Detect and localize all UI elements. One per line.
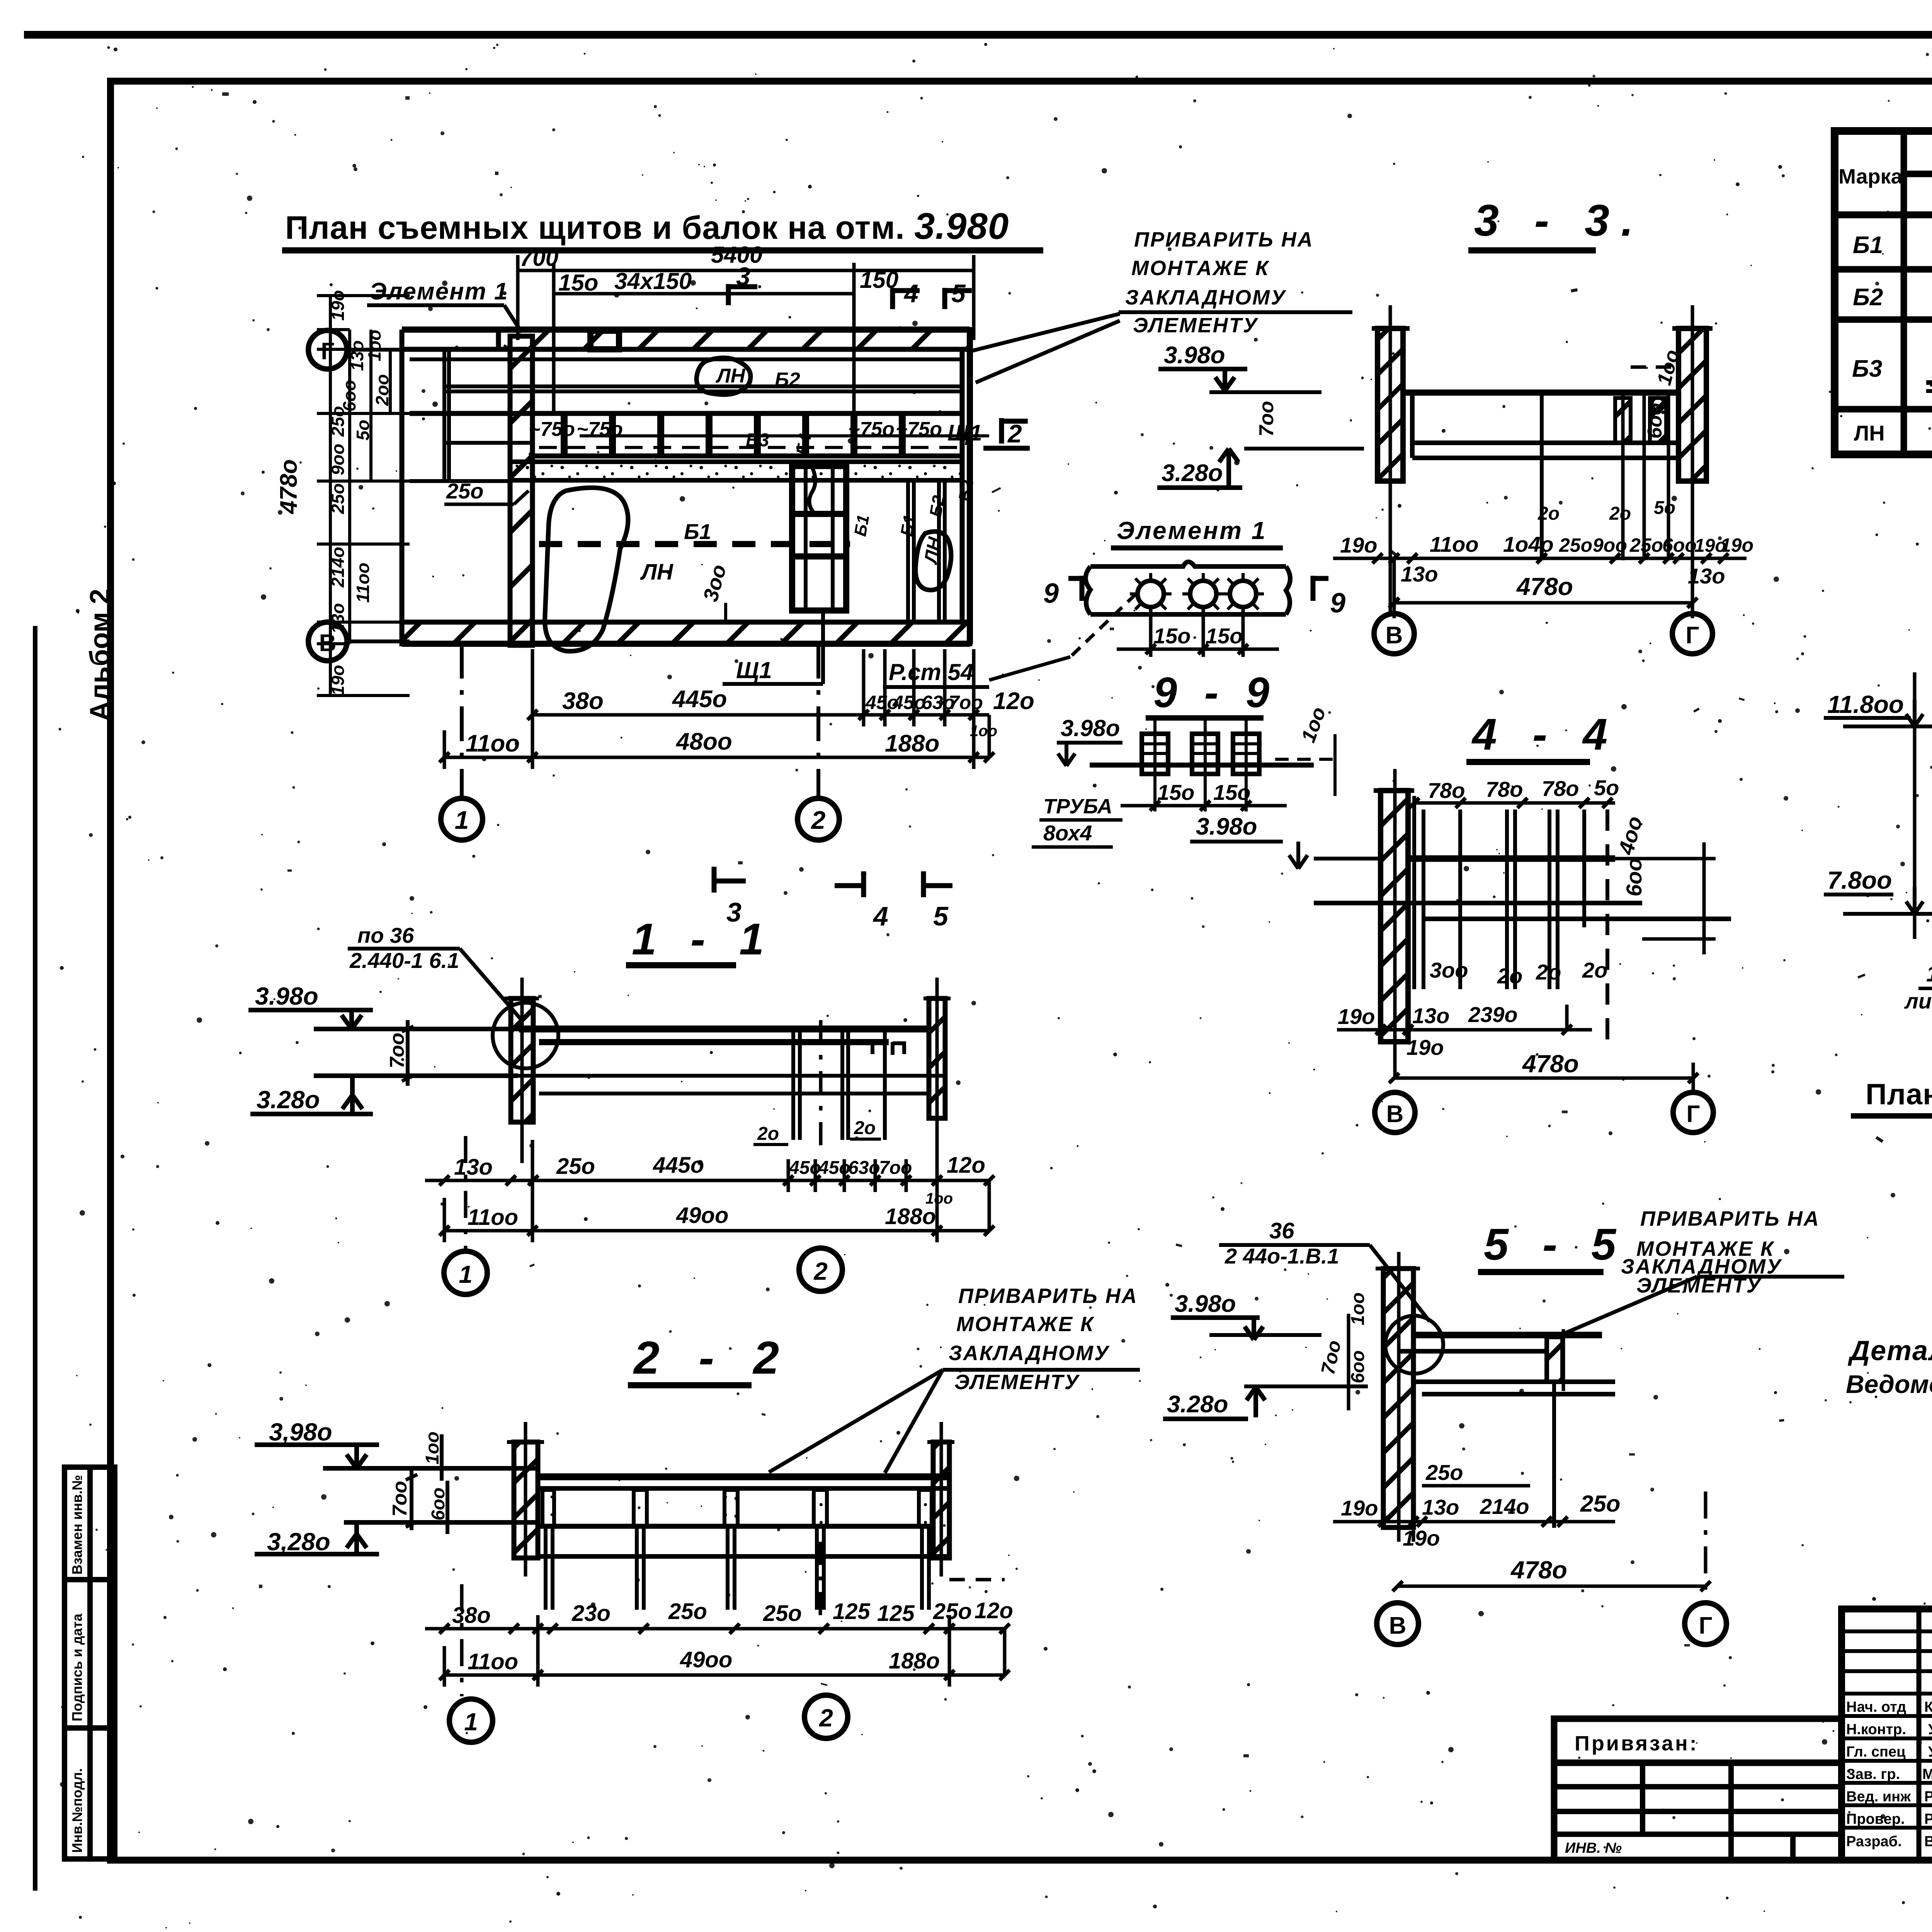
svg-text:Мембороская: Мембороская [1922,1766,1932,1782]
svg-text:Г: Г [1685,622,1699,649]
svg-text:7оо: 7оо [879,1158,912,1178]
svg-text:9оо: 9оо [1593,534,1627,556]
svg-text:2о: 2о [1582,958,1607,982]
svg-text:Щ1: Щ1 [947,420,982,446]
svg-text:11оо: 11оо [466,730,520,757]
svg-text:25o: 25o [446,479,484,503]
svg-text:2: 2 [813,1257,828,1285]
svg-text:3,98o: 3,98o [269,1418,332,1446]
svg-text:1оо: 1оо [970,723,997,740]
svg-text:13о: 13о [1688,564,1725,588]
svg-text:478о: 478о [1516,573,1573,600]
svg-text:700: 700 [520,245,558,271]
svg-text:ПРИВАРИТЬ НА: ПРИВАРИТЬ НА [1640,1207,1820,1230]
svg-text:3 - 3.: 3 - 3. [1474,196,1645,245]
svg-text:49оо: 49оо [676,1203,728,1228]
svg-text:25o: 25o [556,1154,595,1179]
svg-text:15о: 15о [1153,624,1191,648]
svg-text:4: 4 [872,901,888,931]
svg-text:В: В [1386,1101,1404,1128]
svg-text:12о: 12о [993,688,1034,714]
svg-text:19о: 19о [1720,534,1753,556]
svg-text:13о: 13о [1401,562,1438,586]
svg-text:5: 5 [933,901,949,931]
svg-text:25о: 25о [763,1601,802,1626]
svg-text:49оо: 49оо [680,1647,732,1672]
svg-text:Инв.№подл.: Инв.№подл. [69,1768,85,1853]
svg-text:Б3: Б3 [1852,355,1882,382]
svg-text:13o: 13o [454,1155,493,1180]
svg-text:25о: 25о [1629,534,1663,556]
svg-text:Б1: Б1 [1853,232,1883,259]
svg-text:1: 1 [455,806,469,834]
svg-text:2о: 2о [1609,503,1631,524]
svg-text:ЭЛЕМЕНТУ: ЭЛЕМЕНТУ [954,1371,1080,1394]
svg-text:9: 9 [1043,578,1059,609]
svg-text:ЗАКЛАДНОМУ: ЗАКЛАДНОМУ [1125,286,1286,309]
svg-text:78о: 78о [1486,777,1523,801]
svg-text:1: 1 [464,1708,478,1736]
svg-text:2: 2 [811,806,826,834]
svg-text:11оо: 11оо [468,1649,518,1674]
svg-text:25о: 25о [1580,1491,1620,1517]
svg-text:13о: 13о [1422,1495,1459,1519]
svg-text:48оо: 48оо [675,728,732,755]
svg-text:19о: 19о [1406,1035,1444,1060]
svg-text:7оо: 7оо [1255,401,1278,437]
svg-text:6оо: 6оо [1662,534,1697,556]
svg-text:188о: 188о [885,1204,936,1229]
svg-text:~75o: ~75o [529,418,575,440]
svg-text:125: 125 [833,1599,871,1624]
svg-text:2о: 2о [1537,503,1560,524]
svg-text:ЗАКЛАДНОМУ: ЗАКЛАДНОМУ [949,1342,1110,1365]
svg-text:2 44o-1.В.1: 2 44o-1.В.1 [1225,1244,1339,1268]
svg-text:Щ1: Щ1 [736,657,772,683]
svg-text:2о: 2о [1497,964,1522,988]
svg-text:3.98o: 3.98o [255,982,318,1010]
svg-text:17: 17 [1926,961,1932,986]
svg-text:5 - 5: 5 - 5 [1484,1220,1627,1269]
svg-text:7оо: 7оо [386,1033,408,1068]
svg-text:ЛН: ЛН [1854,421,1885,445]
svg-text:Альбом 2: Альбом 2 [85,589,116,721]
svg-text:4: 4 [903,279,918,308]
svg-text:Б3: Б3 [746,430,769,451]
svg-text:15о: 15о [1213,780,1251,804]
svg-text:11оо: 11оо [353,563,373,603]
svg-text:3.98o: 3.98o [1164,342,1225,369]
svg-text:5: 5 [951,279,966,308]
svg-text:45о: 45о [892,692,926,713]
svg-text:1оо: 1оо [422,1432,443,1464]
svg-text:478о: 478о [1522,1050,1579,1078]
svg-text:2: 2 [1930,371,1932,390]
svg-text:9: 9 [1330,588,1345,619]
svg-text:6оо: 6оо [1644,403,1666,439]
svg-text:1оо: 1оо [364,330,384,361]
svg-text:25о: 25о [933,1599,972,1624]
svg-text:6оо: 6оо [1622,858,1646,896]
svg-text:3оо: 3оо [1430,958,1468,982]
svg-text:19о: 19о [1403,1526,1440,1550]
svg-text:3.28o: 3.28o [1162,460,1223,486]
svg-text:3.28o: 3.28o [257,1086,320,1114]
svg-text:Б2: Б2 [1853,284,1883,311]
svg-text:Рапопорт: Рапопорт [1924,1789,1932,1805]
svg-text:2o: 2o [757,1124,779,1144]
svg-text:лист 26: лист 26 [1904,989,1932,1013]
svg-text:19o: 19o [1338,1004,1375,1029]
svg-text:План пожарной лестницы у ряда: План пожарной лестницы у ряда „В" [1866,1078,1932,1111]
svg-text:Взамен инв.№: Взамен инв.№ [69,1475,85,1575]
svg-text:ТРУБА: ТРУБА [1043,795,1112,818]
svg-text:2: 2 [1007,419,1022,448]
svg-text:15o: 15o [558,270,598,296]
svg-text:6оо: 6оо [1348,1350,1368,1383]
svg-text:Г: Г [1686,1101,1700,1128]
svg-text:Н.контр.: Н.контр. [1846,1721,1906,1738]
svg-text:План съемных щитов и балок на: План съемных щитов и балок на отм. 3.980 [285,206,1009,247]
svg-text:Деталь щита Щ1 см. лист 19,: Деталь щита Щ1 см. лист 19, [1847,1335,1932,1366]
svg-text:445o: 445o [653,1153,704,1178]
svg-text:Капитульский: Капитульский [1924,1699,1932,1715]
svg-text:125: 125 [877,1601,915,1626]
svg-text:Учитель: Учитель [1928,1721,1932,1738]
svg-text:Нач. отд: Нач. отд [1846,1699,1906,1715]
svg-text:3.28o: 3.28o [1167,1391,1228,1418]
svg-text:3.98о: 3.98о [1196,813,1257,840]
svg-text:5о: 5о [1654,498,1675,518]
svg-text:445o: 445o [672,686,727,713]
svg-text:ЭЛЕМЕНТУ: ЭЛЕМЕНТУ [1133,314,1259,337]
svg-text:38о: 38о [452,1603,491,1628]
svg-text:Провер.: Провер. [1846,1811,1905,1827]
svg-text:9 - 9: 9 - 9 [1153,669,1277,716]
svg-text:188о: 188о [885,730,939,757]
svg-text:12о: 12о [947,1153,985,1178]
svg-text:15о: 15о [1206,624,1243,648]
svg-text:Г: Г [321,338,334,365]
svg-text:Ведомость элементов по сери: Ведомость элементов по серии 1.45о. 3 - … [1846,1370,1932,1398]
svg-text:1 - 1: 1 - 1 [632,915,775,964]
svg-text:19o: 19o [1341,1496,1378,1520]
svg-text:ИНВ. №: ИНВ. № [1565,1840,1622,1856]
svg-text:Элемент 1: Элемент 1 [369,278,508,305]
svg-text:45о: 45о [818,1158,850,1178]
svg-text:Б1: Б1 [684,519,711,544]
svg-text:36: 36 [1269,1218,1294,1243]
svg-text:Б2: Б2 [775,369,800,391]
svg-text:25o: 25o [1425,1460,1463,1485]
svg-text:2о: 2о [1536,960,1561,984]
svg-text:Б2: Б2 [926,494,949,519]
svg-text:по 36: по 36 [357,923,414,947]
svg-text:4 - 4: 4 - 4 [1471,710,1619,759]
svg-text:45о: 45о [789,1158,821,1178]
svg-text:Б1: Б1 [851,513,873,537]
svg-text:78о: 78о [1542,776,1579,801]
svg-text:78о: 78о [1428,778,1465,803]
svg-text:38о: 38о [562,688,604,714]
svg-text:7оо: 7оо [389,1481,411,1517]
svg-text:2 - 2: 2 - 2 [633,1332,792,1384]
svg-text:Привязан:: Привязан: [1575,1732,1699,1755]
svg-text:12о: 12о [975,1598,1013,1623]
svg-text:34х150: 34х150 [614,268,692,294]
svg-text:8ох4: 8ох4 [1043,821,1092,845]
svg-text:Элемент 1: Элемент 1 [1117,517,1267,544]
svg-text:3,28o: 3,28o [267,1528,330,1556]
svg-text:Б1: Б1 [897,513,920,537]
svg-text:3.98o: 3.98o [1175,1291,1236,1317]
svg-text:МОНТАЖЕ К: МОНТАЖЕ К [956,1313,1095,1336]
svg-text:Разраб.: Разраб. [1846,1833,1902,1850]
svg-text:Б2: Б2 [955,478,978,503]
svg-text:Р.ст 54: Р.ст 54 [889,659,973,685]
svg-text:25о: 25о [668,1599,707,1624]
svg-text:Власова: Власова [1924,1833,1932,1850]
svg-text:1: 1 [459,1260,473,1288]
svg-text:Подпись и дата: Подпись и дата [69,1613,85,1721]
svg-text:2.440-1 6.1: 2.440-1 6.1 [349,948,459,973]
svg-text:МОНТАЖЕ К: МОНТАЖЕ К [1131,257,1270,280]
svg-text:2: 2 [819,1704,833,1732]
svg-text:13о: 13о [1412,1003,1450,1028]
svg-text:478о: 478о [276,459,302,515]
svg-text:1оо: 1оо [1348,1293,1368,1325]
svg-text:В: В [1386,622,1403,649]
svg-text:239о: 239о [1468,1002,1518,1027]
svg-text:6оо: 6оо [428,1488,449,1520]
svg-text:Марка: Марка [1838,165,1903,188]
svg-text:Вед. инж: Вед. инж [1846,1789,1911,1805]
svg-text:ЛН: ЛН [715,365,746,387]
svg-text:478о: 478о [1510,1556,1567,1584]
svg-text:214о: 214о [1480,1494,1529,1519]
svg-text:2o: 2o [854,1118,876,1138]
svg-text:Рапопорт: Рапопорт [1924,1811,1932,1827]
svg-text:3.98о: 3.98о [1061,715,1120,741]
svg-text:В: В [1389,1612,1406,1639]
svg-text:7.8оо: 7.8оо [1827,866,1892,894]
svg-text:ПРИВАРИТЬ НА: ПРИВАРИТЬ НА [1134,228,1314,251]
svg-text:Зав. гр.: Зав. гр. [1846,1766,1900,1782]
svg-text:11.8оо: 11.8оо [1827,690,1904,718]
svg-text:5о: 5о [1594,776,1619,800]
svg-text:3: 3 [736,262,750,291]
svg-text:11оо: 11оо [468,1205,518,1230]
svg-text:25о: 25о [1559,534,1592,556]
svg-text:15o: 15o [1157,780,1195,804]
svg-text:ПРИВАРИТЬ НА: ПРИВАРИТЬ НА [958,1284,1138,1308]
svg-text:19o: 19o [1340,533,1378,557]
svg-text:11оо: 11оо [1430,532,1479,556]
svg-text:63о: 63о [848,1158,880,1178]
svg-text:Гл. спец: Гл. спец [1846,1744,1906,1760]
svg-text:Учитель: Учитель [1928,1744,1932,1760]
svg-text:Г: Г [1699,1612,1712,1639]
